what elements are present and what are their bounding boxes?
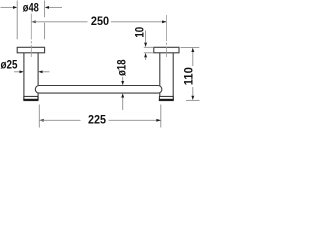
right post xyxy=(160,53,173,100)
dimension 110 (projection) xyxy=(181,47,200,100)
dimension 10 (plate thickness) xyxy=(133,27,154,60)
svg-text:110: 110 xyxy=(181,67,195,85)
svg-text:250: 250 xyxy=(91,14,109,28)
dimension 250 xyxy=(31,14,166,28)
svg-text:ø25: ø25 xyxy=(1,57,18,71)
left mounting plate xyxy=(17,47,44,53)
centerline right post xyxy=(166,15,168,57)
left post xyxy=(24,53,38,100)
svg-text:ø48: ø48 xyxy=(23,0,39,14)
dimension ø25 xyxy=(1,57,50,73)
right mounting plate xyxy=(154,47,179,53)
towel bar xyxy=(35,86,162,94)
right bottom cap xyxy=(159,96,174,100)
svg-text:ø18: ø18 xyxy=(115,59,129,76)
dimension ø48 xyxy=(1,0,63,39)
centerline left post xyxy=(30,14,32,58)
svg-text:10: 10 xyxy=(133,27,147,38)
dimension 225 (bar length) xyxy=(39,105,161,128)
left bottom cap xyxy=(23,96,38,100)
svg-text:225: 225 xyxy=(88,113,106,127)
dimension ø18 (bar diameter) xyxy=(115,59,129,110)
